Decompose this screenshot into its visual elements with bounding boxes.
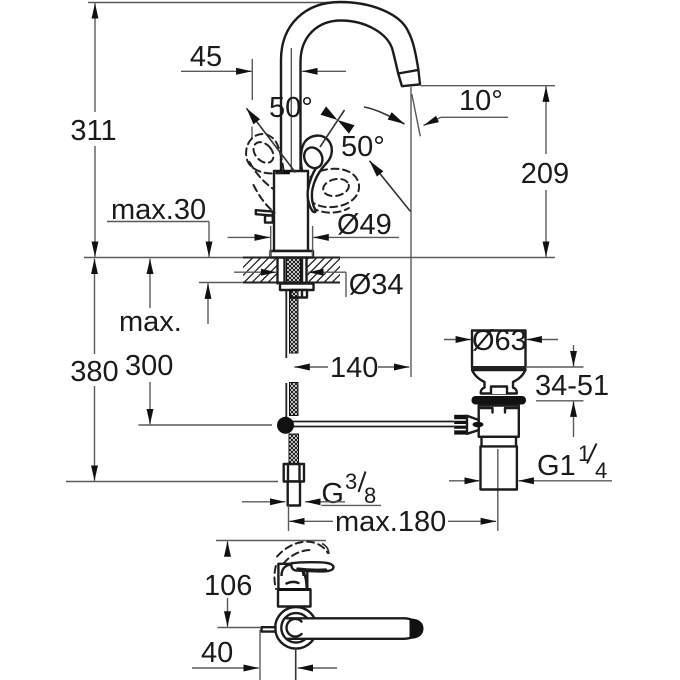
bowtie arrows: [321, 106, 338, 120]
base flange: [271, 251, 314, 258]
106 top ref: [216, 540, 326, 542]
50deg left indicator line L1: [247, 108, 296, 172]
svg-text:50°: 50°: [341, 131, 385, 163]
deck top line: [84, 257, 555, 259]
hose crosshatch below joint: [289, 434, 299, 464]
dim 10deg vertical extension: [410, 87, 412, 377]
dim 140: [294, 352, 409, 384]
drain black flange: [472, 396, 527, 405]
svg-text:209: 209: [521, 158, 569, 190]
cap bottom thick band: [471, 366, 527, 370]
rod clamp dot: [277, 417, 294, 434]
dim 40: [192, 630, 337, 680]
svg-text:380: 380: [70, 356, 118, 388]
shank washers: [278, 258, 307, 284]
line L2: [320, 110, 345, 147]
column: [278, 590, 311, 607]
bayonet notches: [481, 408, 518, 413]
label G1 1/4: [449, 441, 612, 483]
drain center line: [497, 449, 499, 531]
drain mid section: [482, 437, 517, 447]
dashed raised lever: [277, 542, 328, 557]
lever blade: [291, 562, 333, 571]
top reference line: [88, 2, 356, 4]
dim 311: [70, 3, 116, 257]
svg-text:40: 40: [201, 637, 233, 669]
deck hatch: [228, 258, 365, 283]
drain cap: [472, 331, 526, 368]
horizontal pop-up rod: [290, 422, 454, 427]
C ring: [287, 619, 302, 637]
svg-text:10°: 10°: [459, 85, 503, 117]
svg-text:50°: 50°: [269, 92, 313, 124]
dim 45: [181, 41, 346, 138]
pivot ball: [473, 422, 484, 428]
solid loop inner right edge: [308, 166, 318, 211]
solid loop outer: [301, 136, 332, 212]
drain taper: [472, 370, 526, 394]
svg-text:max.180: max.180: [335, 506, 446, 538]
svg-text:Ø63: Ø63: [472, 325, 527, 357]
dim 106: [204, 541, 261, 627]
dashed loop left outer: [246, 134, 283, 173]
knurled nut: [454, 415, 467, 435]
svg-text:106: 106: [204, 570, 252, 602]
solid loop lever fill: [301, 136, 332, 212]
fitting below nut: [291, 290, 308, 298]
aerator: [398, 70, 420, 86]
body box: [278, 564, 307, 590]
hose crosshatch after break: [290, 383, 299, 416]
dashed arc right lower: [312, 208, 350, 213]
svg-text:Ø34: Ø34: [349, 269, 404, 301]
spout tube: [287, 618, 417, 639]
dashed loop right outer: [310, 169, 360, 207]
dashed arcs left lower: [250, 162, 274, 189]
dashed loop left inner: [250, 138, 278, 167]
pop-up rod below deck: [285, 291, 287, 417]
dashed box edge: [274, 566, 276, 589]
svg-text:300: 300: [125, 350, 173, 382]
spout riser axis thin line: [290, 48, 292, 170]
cone: [467, 416, 479, 434]
dim 34-51: [527, 345, 609, 437]
svg-text:3: 3: [345, 469, 357, 494]
deck bottom line: [199, 282, 243, 284]
dim dia49: [228, 209, 400, 257]
drain body: [479, 406, 519, 437]
svg-text:34-51: 34-51: [535, 370, 609, 402]
plug pin square: [491, 387, 507, 395]
side tab: [256, 210, 273, 215]
svg-text:140: 140: [330, 352, 378, 384]
hose nut G3/8: [284, 464, 304, 482]
dim max180: [289, 506, 497, 539]
swivel arc: [364, 107, 405, 124]
tube dark tip: [410, 619, 424, 639]
svg-text:45: 45: [190, 41, 222, 73]
supply tube: [288, 482, 300, 506]
spout outer outline: [281, 2, 418, 171]
dim 380: [66, 259, 278, 482]
svg-text:8: 8: [364, 483, 376, 508]
dim max300: [119, 259, 272, 425]
body top tick: [276, 170, 290, 174]
axis line below: [295, 649, 297, 680]
svg-text:G1: G1: [537, 450, 576, 482]
svg-text:max.: max.: [119, 306, 182, 338]
hose crosshatch upper: [290, 290, 299, 353]
rod stub: [262, 627, 276, 631]
label G3/8: [242, 469, 381, 510]
threaded shank crosshatch above nut: [287, 258, 301, 284]
mounting nut: [280, 284, 314, 291]
dashed loop right inner: [322, 177, 351, 199]
dim 209: [421, 86, 569, 257]
10deg leader: [424, 117, 509, 125]
svg-text:4: 4: [595, 458, 607, 483]
dim dia63: [444, 325, 558, 357]
tailpipe: [481, 446, 517, 489]
dome: [282, 565, 304, 577]
dim max.30: [107, 194, 209, 324]
dim dia34: [234, 269, 404, 301]
loop inner hole: [301, 144, 326, 171]
spout inner outline: [301, 21, 399, 172]
svg-text:311: 311: [70, 115, 116, 147]
body: [274, 171, 308, 251]
body circles: [275, 607, 317, 649]
line L3: [370, 161, 411, 212]
svg-text:Ø49: Ø49: [337, 209, 392, 241]
10deg tilted line: [412, 94, 421, 136]
